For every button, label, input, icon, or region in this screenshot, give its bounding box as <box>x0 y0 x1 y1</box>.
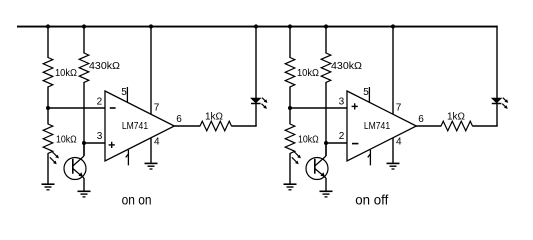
ground: phototransistor 2 emitter <box>320 191 333 197</box>
node: rail junction pin 7 (U2) <box>391 24 395 28</box>
op-amp U2 inverting input mark <box>352 143 358 145</box>
svg-text:7: 7 <box>154 103 160 114</box>
wire: column A from node to R3 <box>47 108 49 124</box>
op-amp U1 inverting input mark <box>110 107 116 109</box>
svg-text:3: 3 <box>97 131 103 142</box>
svg-text:4: 4 <box>396 136 402 147</box>
op-amp U1 non-inverting input mark <box>109 142 115 148</box>
node: rail junction col B2 <box>324 24 328 28</box>
resistor R3 10k (lower left) <box>43 124 53 153</box>
wire: R5 to LED column <box>231 125 256 127</box>
svg-text:LM741: LM741 <box>122 121 149 132</box>
node: rail junction col A2 <box>288 24 292 28</box>
resistor R8 10k (lower) <box>285 124 295 153</box>
svg-text:6: 6 <box>176 114 182 125</box>
transistor Q2 phototransistor <box>292 143 328 191</box>
svg-text:6: 6 <box>418 114 424 125</box>
wire: column B from rail to R2 <box>83 26 85 54</box>
pin 7 stub from rail <box>150 26 152 115</box>
node: junction col A / pin2 wire <box>46 106 50 110</box>
ground: pin 4 (U2) <box>387 163 400 169</box>
pin 1 label <box>368 150 371 166</box>
wire: column A2 between R6 and node <box>289 87 291 109</box>
svg-text:2: 2 <box>339 131 345 142</box>
wire: column A2 from rail to R6 <box>289 26 291 58</box>
ground: pin 4 <box>145 163 158 169</box>
ground: column A2 <box>284 184 297 190</box>
ground: phototransistor emitter <box>78 191 91 197</box>
pin 4 stub <box>392 138 394 163</box>
svg-text:430kΩ: 430kΩ <box>89 61 121 72</box>
pin 7 stub from rail <box>392 26 394 115</box>
wire: LED D1 column from rail to output wire <box>255 26 257 126</box>
op-amp U1 triangle <box>105 91 174 161</box>
wire: to op-amp pin 2 <box>326 142 347 144</box>
LED D2 <box>492 98 508 109</box>
resistor R5 1k <box>200 121 232 131</box>
pin 5 stub <box>368 87 370 103</box>
node: junction col B / pin3 wire <box>82 141 86 145</box>
pin 1 label <box>126 150 129 166</box>
wire: to op-amp pin 3 <box>84 142 105 144</box>
wire: LED D2 column from rail corner to output wire <box>496 26 498 126</box>
svg-text:5: 5 <box>121 87 127 98</box>
LED D1 <box>251 98 267 109</box>
wire: to op-amp pin 3 <box>289 107 347 109</box>
svg-text:430kΩ: 430kΩ <box>331 61 363 72</box>
op-amp U2 non-inverting input mark <box>352 103 358 109</box>
node: rail junction col A <box>46 24 50 28</box>
wire: column A from rail to R1 <box>47 26 49 58</box>
wire: column A2 from R8 to ground <box>289 153 291 184</box>
resistor R7 430k <box>321 53 331 82</box>
wire: op-amp 2 output to R9 <box>416 125 441 127</box>
node: rail junction LED D1 <box>254 24 258 28</box>
wire: column A from R3 to ground <box>47 153 49 184</box>
svg-text:10kΩ: 10kΩ <box>297 68 319 79</box>
transistor Q1 phototransistor <box>50 143 86 191</box>
svg-text:on off: on off <box>355 191 388 207</box>
svg-text:10kΩ: 10kΩ <box>56 134 77 145</box>
wire: R9 to LED column <box>472 125 497 127</box>
resistor R6 10k (top) <box>285 58 295 87</box>
svg-text:7: 7 <box>396 103 402 114</box>
node: rail junction col B <box>82 24 86 28</box>
wire: column B2 from R7 down across pin3 wire to phototransistor collector <box>325 82 327 156</box>
svg-text:2: 2 <box>97 97 103 108</box>
svg-text:1kΩ: 1kΩ <box>447 112 466 123</box>
svg-text:10kΩ: 10kΩ <box>298 134 319 145</box>
resistor R9 1k <box>441 121 473 131</box>
svg-text:on on: on on <box>122 191 152 207</box>
resistor R2 430k <box>79 53 89 82</box>
svg-text:3: 3 <box>339 97 345 108</box>
svg-text:4: 4 <box>154 136 160 147</box>
pin 4 stub <box>150 138 152 163</box>
svg-text:1kΩ: 1kΩ <box>205 112 224 123</box>
svg-text:10kΩ: 10kΩ <box>55 68 77 79</box>
node: junction col A2 / pin3 wire <box>288 106 292 110</box>
wire: column B from R2 down across pin2 wire to phototransistor collector <box>83 82 85 156</box>
resistor R1 10k (top left) <box>43 58 53 87</box>
op-amp U2 triangle <box>347 91 416 161</box>
wire: column B2 from rail to R7 <box>325 26 327 54</box>
pin 5 stub <box>126 87 128 103</box>
wire: column A between R1 and node <box>47 87 49 109</box>
node: rail junction pin 7 <box>149 24 153 28</box>
ground: column A <box>42 184 55 190</box>
wire: top supply rail <box>17 26 498 28</box>
svg-text:LM741: LM741 <box>364 121 391 132</box>
wire: to op-amp pin 2 <box>47 107 105 109</box>
svg-text:5: 5 <box>363 87 369 98</box>
wire: column A2 from node to R8 <box>289 108 291 124</box>
node: junction col B2 / pin2 wire <box>324 141 328 145</box>
wire: op-amp output to R5 <box>174 125 200 127</box>
